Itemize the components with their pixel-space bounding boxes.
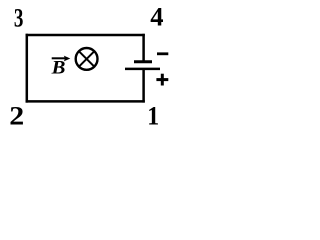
svg-text:1: 1 (147, 103, 159, 131)
node 4 (150, 2, 163, 32)
field symbol B into page (circle with X) (76, 48, 98, 70)
battery minus label (157, 52, 168, 55)
wire top (3-4) (26, 34, 145, 37)
wire right lower (battery positive plate to 1) (142, 69, 145, 103)
wire right upper (4 to battery negative plate) (142, 34, 145, 62)
battery BT1 positive plate (long) (125, 68, 160, 71)
wire left (3-2) (26, 34, 29, 103)
node 2 (9, 102, 24, 131)
battery plus label (156, 74, 168, 86)
svg-text:4: 4 (150, 2, 163, 32)
battery BT1 negative plate (short) (134, 60, 152, 63)
wire bottom (2-1) (26, 100, 145, 103)
node 1 (147, 103, 159, 131)
svg-text:B: B (51, 57, 66, 78)
label vector B (51, 56, 71, 79)
svg-text:3: 3 (14, 2, 24, 32)
node 3 (14, 2, 24, 32)
svg-text:2: 2 (9, 102, 24, 131)
